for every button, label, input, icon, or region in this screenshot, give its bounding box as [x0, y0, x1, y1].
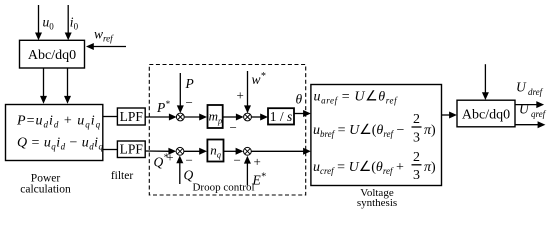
- svg-text:−: −: [234, 153, 241, 168]
- label Voltage synthesis: [357, 187, 397, 209]
- wire J4 to voltage synthesis (E): [251, 148, 311, 155]
- block Abc/dq0 (input transform U1): [20, 40, 85, 68]
- wire voltage synthesis to output Abc/dq0: [442, 112, 457, 119]
- svg-text:LPF: LPF: [120, 109, 144, 124]
- svg-text:calculation: calculation: [20, 184, 71, 196]
- input P arrow into J1: [177, 73, 184, 113]
- wire power to LPF1: [103, 116, 118, 118]
- svg-text:θ: θ: [296, 92, 303, 107]
- svg-text:π): π): [424, 160, 436, 175]
- svg-text:Abc/dq0: Abc/dq0: [28, 48, 76, 63]
- wire id to power calculation: [64, 68, 71, 104]
- block voltage synthesis: [311, 85, 442, 186]
- block power calculation: [6, 105, 103, 161]
- input i0 arrow: [65, 5, 72, 40]
- wire J3 to nq: [184, 148, 207, 155]
- svg-text:3: 3: [413, 130, 420, 145]
- input E* arrow into J4: [244, 156, 251, 186]
- wire nq to J4: [224, 148, 244, 155]
- summing junction J4: [244, 147, 252, 155]
- svg-text:+: +: [167, 151, 174, 165]
- block Abc/dq0 (output transform U2): [457, 100, 515, 127]
- wire mp to J2: [223, 114, 244, 121]
- svg-text:P: P: [185, 76, 194, 91]
- wire LPF1 to summing junction J1: [145, 114, 177, 121]
- block nq (Q droop gain): [207, 140, 223, 162]
- wire ud to power calculation: [40, 68, 47, 104]
- svg-text:2: 2: [413, 150, 420, 165]
- svg-text:LPF: LPF: [120, 142, 144, 157]
- input w* arrow into J2: [244, 71, 251, 113]
- input u0 arrow: [35, 5, 42, 40]
- wire J1 to mp: [184, 114, 207, 121]
- svg-text:3: 3: [413, 168, 420, 183]
- input Q arrow into J3: [176, 156, 183, 185]
- wire power to LPF2: [103, 149, 118, 151]
- block LPF2: [117, 141, 145, 158]
- input arrow into output Abc/dq0 (top): [482, 64, 489, 100]
- equation ubref: [313, 112, 436, 145]
- block integrator 1/s: [268, 108, 294, 124]
- equation ucref: [313, 150, 436, 183]
- svg-text:Droop control: Droop control: [192, 182, 254, 194]
- svg-text:−: −: [186, 95, 193, 110]
- output Udref arrow: [515, 101, 544, 108]
- summing junction J2: [244, 113, 252, 121]
- svg-text:filter: filter: [111, 170, 134, 182]
- wire LPF2 to summing junction J3: [145, 148, 176, 155]
- svg-text:Abc/dq0: Abc/dq0: [462, 108, 510, 123]
- output Uqref arrow: [515, 121, 545, 128]
- summing junction J3: [176, 147, 184, 155]
- wire J2 to integrator: [251, 114, 268, 121]
- summing junction J1: [176, 113, 184, 121]
- svg-text:1 / s: 1 / s: [270, 109, 293, 124]
- svg-text:−: −: [230, 120, 237, 135]
- droop control dashed boundary: [149, 65, 305, 196]
- wire integrator to voltage synthesis (theta): [294, 110, 311, 117]
- svg-text:+: +: [254, 154, 261, 169]
- svg-text:+: +: [237, 88, 244, 103]
- svg-text:2: 2: [413, 112, 420, 127]
- label Power calculation: [20, 173, 71, 196]
- svg-text:π): π): [424, 123, 436, 138]
- block LPF1: [117, 108, 145, 125]
- svg-text:synthesis: synthesis: [357, 197, 397, 209]
- svg-text:Q: Q: [184, 168, 194, 183]
- input wref arrow: [86, 43, 126, 50]
- svg-text:−: −: [186, 153, 193, 168]
- block mp (P droop gain): [208, 105, 223, 128]
